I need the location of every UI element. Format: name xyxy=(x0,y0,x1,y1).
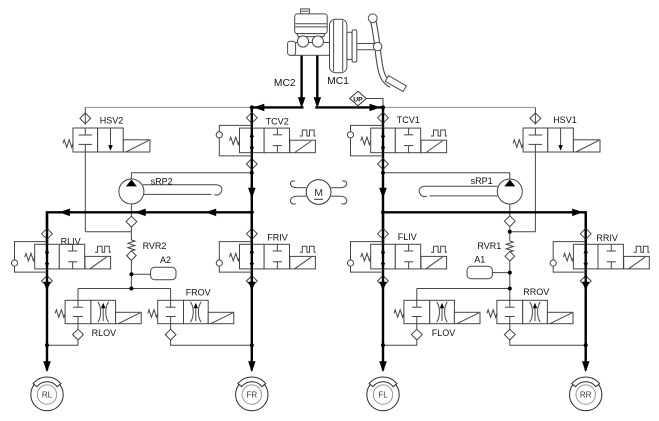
svg-text:MC1: MC1 xyxy=(327,76,349,87)
svg-text:TCV1: TCV1 xyxy=(397,115,420,125)
svg-text:A1: A1 xyxy=(474,254,485,264)
svg-text:RL: RL xyxy=(42,391,53,400)
svg-text:UP: UP xyxy=(353,96,363,103)
svg-text:RR: RR xyxy=(580,391,592,400)
svg-text:FLOV: FLOV xyxy=(432,328,456,338)
svg-text:MC2: MC2 xyxy=(274,78,296,89)
svg-text:RRIV: RRIV xyxy=(596,233,618,243)
svg-text:FLIV: FLIV xyxy=(398,232,417,242)
svg-text:RROV: RROV xyxy=(523,287,549,297)
svg-text:M: M xyxy=(314,187,323,199)
svg-text:TCV2: TCV2 xyxy=(266,116,289,126)
svg-text:sRP1: sRP1 xyxy=(471,176,493,186)
svg-text:FR: FR xyxy=(246,391,257,400)
svg-text:sRP2: sRP2 xyxy=(151,176,173,186)
svg-text:HSV1: HSV1 xyxy=(553,115,577,125)
svg-text:RVR1: RVR1 xyxy=(477,241,501,251)
svg-text:RVR2: RVR2 xyxy=(143,241,167,251)
svg-text:FROV: FROV xyxy=(186,288,211,298)
svg-text:HSV2: HSV2 xyxy=(100,115,124,125)
svg-text:A2: A2 xyxy=(160,255,171,265)
svg-text:RLIV: RLIV xyxy=(61,236,81,246)
svg-text:FRIV: FRIV xyxy=(267,233,288,243)
svg-text:FL: FL xyxy=(378,391,388,400)
svg-text:RLOV: RLOV xyxy=(92,328,117,338)
